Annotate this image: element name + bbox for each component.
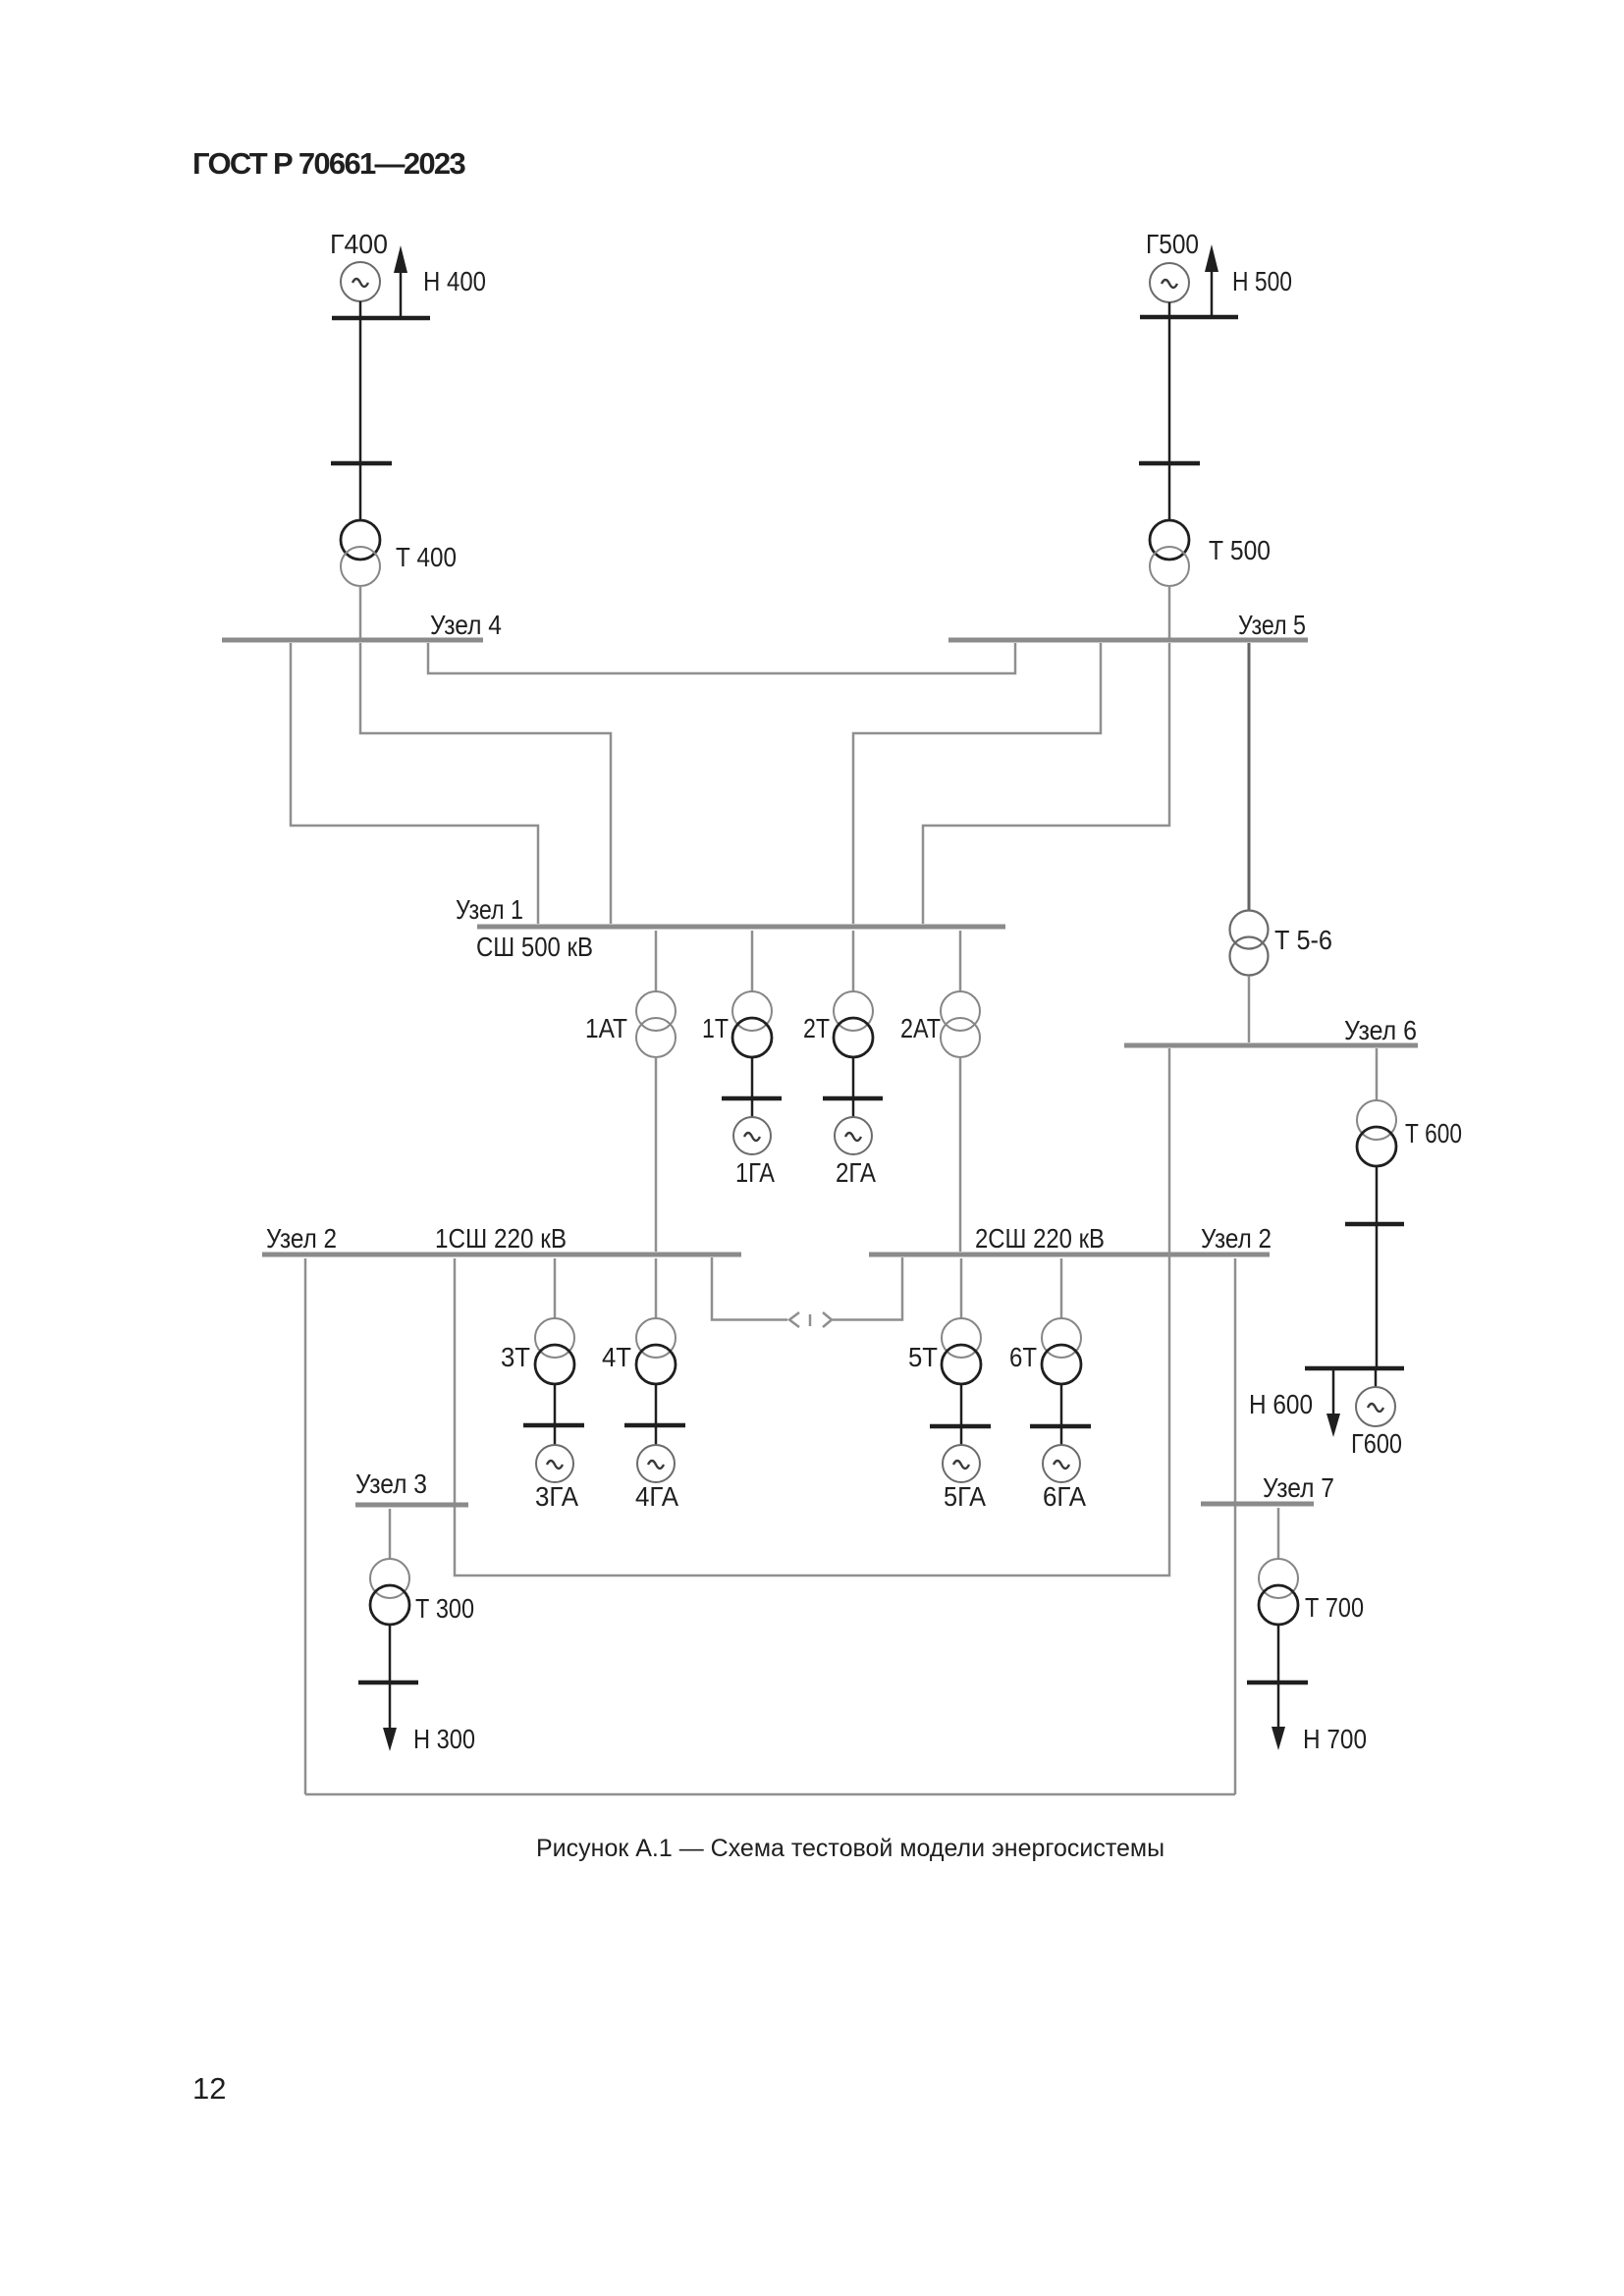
svg-text:5ГА: 5ГА	[944, 1481, 986, 1512]
svg-text:Г500: Г500	[1146, 229, 1199, 259]
svg-text:3Т: 3Т	[501, 1342, 530, 1372]
svg-text:Г400: Г400	[330, 229, 388, 259]
svg-text:1СШ 220 кВ: 1СШ 220 кВ	[435, 1223, 567, 1254]
svg-text:Н 600: Н 600	[1249, 1389, 1313, 1419]
svg-text:Т 600: Т 600	[1405, 1118, 1462, 1148]
svg-text:Н 700: Н 700	[1303, 1724, 1367, 1754]
svg-text:Узел 6: Узел 6	[1344, 1015, 1417, 1045]
svg-text:2СШ 220 кВ: 2СШ 220 кВ	[975, 1223, 1105, 1254]
svg-text:Узел 2: Узел 2	[266, 1223, 337, 1254]
svg-text:СШ 500 кВ: СШ 500 кВ	[476, 932, 593, 962]
svg-text:6ГА: 6ГА	[1043, 1481, 1086, 1512]
svg-text:4ГА: 4ГА	[635, 1481, 678, 1512]
svg-text:6Т: 6Т	[1009, 1342, 1037, 1372]
svg-text:Т 500: Т 500	[1209, 535, 1271, 565]
svg-text:Т 300: Т 300	[415, 1593, 474, 1624]
svg-text:2АТ: 2АТ	[900, 1013, 941, 1043]
svg-text:2ГА: 2ГА	[836, 1157, 876, 1188]
svg-text:1Т: 1Т	[702, 1013, 729, 1043]
svg-text:12: 12	[192, 2071, 226, 2106]
svg-text:Н 500: Н 500	[1232, 266, 1292, 296]
svg-text:Узел 3: Узел 3	[355, 1468, 427, 1499]
svg-text:Узел 2: Узел 2	[1201, 1223, 1272, 1254]
svg-text:4Т: 4Т	[602, 1342, 631, 1372]
svg-text:2Т: 2Т	[803, 1013, 830, 1043]
svg-text:5Т: 5Т	[908, 1342, 938, 1372]
svg-text:Т 700: Т 700	[1305, 1592, 1364, 1623]
svg-text:Узел 5: Узел 5	[1238, 610, 1306, 640]
svg-text:Г600: Г600	[1351, 1428, 1402, 1459]
svg-text:Узел 7: Узел 7	[1263, 1472, 1334, 1503]
svg-text:Узел 1: Узел 1	[456, 894, 523, 925]
svg-text:1АТ: 1АТ	[585, 1013, 627, 1043]
svg-text:Т 5-6: Т 5-6	[1274, 925, 1332, 955]
svg-text:Узел 4: Узел 4	[430, 610, 502, 640]
svg-text:Н 400: Н 400	[423, 266, 486, 296]
svg-text:ГОСТ Р 70661—2023: ГОСТ Р 70661—2023	[192, 146, 465, 181]
svg-text:Н 300: Н 300	[413, 1724, 475, 1754]
svg-text:Т 400: Т 400	[396, 542, 457, 572]
svg-text:Рисунок А.1 — Схема тестовой м: Рисунок А.1 — Схема тестовой модели энер…	[536, 1835, 1164, 1862]
svg-text:3ГА: 3ГА	[535, 1481, 578, 1512]
svg-text:1ГА: 1ГА	[735, 1157, 775, 1188]
